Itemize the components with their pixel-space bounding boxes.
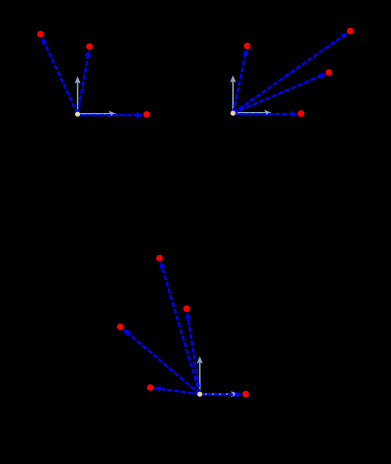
target point P6 (red dot) [326, 69, 333, 76]
target point P12 (red dot) [242, 391, 249, 398]
dashed vector arrow from frame 2 origin to point P6 [233, 74, 326, 114]
dashed vector arrow from frame 3 origin to point P9 [185, 312, 200, 394]
frame 3 y-axis arrow [197, 356, 203, 394]
dashed vector arrow from frame 3 origin to point P10 [123, 329, 200, 394]
target point P1 (red dot) [37, 31, 44, 38]
target point P8 (red dot) [156, 255, 163, 262]
target point P11 (red dot) [147, 384, 154, 391]
dashed vector arrow from frame 3 origin to point P11 [154, 386, 200, 394]
dashed vector arrow from frame 2 origin to point P7 [233, 111, 297, 117]
target point P10 (red dot) [117, 324, 124, 331]
dashed vector arrow from frame 3 origin to point P8 [159, 262, 199, 395]
dashed vector arrow from frame 2 origin to point P5 [233, 33, 347, 113]
target point P2 (red dot) [86, 43, 93, 50]
target point P7 (red dot) [298, 110, 305, 117]
target point P4 (red dot) [244, 43, 251, 50]
frame 2 y-axis arrow [230, 75, 236, 113]
frame 3 x-axis arrow [200, 391, 239, 397]
frame 2 origin dot [231, 111, 236, 116]
target point P9 (red dot) [183, 305, 190, 312]
frame 1 origin dot [75, 112, 80, 117]
dashed vector arrow from frame 1 origin to point P3 [78, 112, 143, 118]
frame 1 y-axis arrow [75, 76, 81, 114]
target point P3 (red dot) [143, 111, 150, 118]
frame 3 origin dot [197, 392, 202, 397]
frame 2 x-axis arrow [233, 110, 272, 116]
dashed vector arrow from frame 2 origin to point P4 [233, 49, 248, 113]
dashed vector arrow from frame 1 origin to point P1 [42, 38, 78, 115]
dashed vector arrow from frame 3 origin to point P12 [200, 392, 242, 398]
dashed vector arrow from frame 1 origin to point P2 [78, 50, 91, 114]
frame 1 x-axis arrow [78, 111, 117, 117]
target point P5 (red dot) [347, 28, 354, 35]
